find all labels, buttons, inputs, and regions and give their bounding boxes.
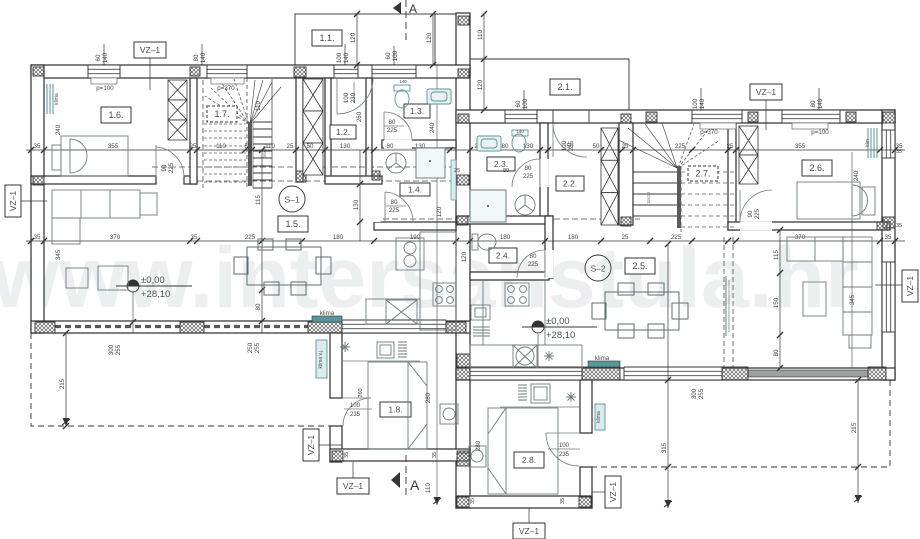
- pier wing2 se: [579, 497, 591, 507]
- svg-text:300: 300: [691, 388, 698, 399]
- wall south of 2.6: [728, 222, 890, 230]
- svg-text:115: 115: [773, 250, 780, 260]
- svg-text:25: 25: [622, 143, 629, 150]
- dim chain A: [26, 143, 905, 153]
- wall south of 1.2: [325, 176, 382, 184]
- dim door wing1: [344, 408, 372, 410]
- svg-text:225: 225: [675, 143, 686, 150]
- svg-text:235: 235: [350, 412, 361, 418]
- pier top wall b: [294, 67, 306, 77]
- wardrobe hall unit1: [303, 79, 323, 175]
- sink bath 1.3: [386, 153, 406, 173]
- svg-text:225: 225: [168, 162, 175, 173]
- vline x437 full: [436, 65, 438, 505]
- heater wing2: [518, 385, 527, 400]
- svg-text:355: 355: [795, 143, 806, 150]
- pier right wall mid: [883, 217, 895, 228]
- top wall right wing: [456, 110, 895, 123]
- svg-text:2.6.: 2.6.: [809, 163, 824, 173]
- klima vert wing2: [595, 404, 605, 430]
- svg-text:VZ–1: VZ–1: [8, 191, 18, 212]
- svg-text:35: 35: [344, 452, 350, 458]
- bed room 1.6: [52, 136, 128, 176]
- wardrobe room 1.6: [168, 80, 187, 140]
- room label 1.8: [380, 402, 411, 417]
- svg-text:225: 225: [387, 127, 398, 134]
- svg-text:255: 255: [254, 342, 261, 353]
- toilet wc 2.4: [472, 234, 496, 250]
- svg-text:klima: klima: [54, 93, 60, 105]
- dining table S-1: [234, 239, 331, 295]
- wall south of 2.3: [456, 216, 553, 224]
- window top-right w2: [692, 110, 742, 123]
- svg-text:235: 235: [568, 140, 575, 151]
- window top-right w1: [505, 110, 537, 123]
- window top-left w3: [334, 65, 358, 78]
- vdim x262 living1: [255, 147, 265, 333]
- coffee table living2: [803, 282, 826, 316]
- wall 1.6|stair: [190, 78, 197, 184]
- svg-text:345: 345: [849, 294, 856, 305]
- svg-text:80: 80: [502, 143, 509, 150]
- door bath 1.4: [385, 192, 413, 222]
- bed wing2: [488, 408, 558, 494]
- dim chain B left: [26, 234, 459, 244]
- pier party mid2: [458, 114, 469, 123]
- wall 2.3|2.2: [540, 123, 548, 222]
- wardrobe room 2.6: [739, 126, 758, 184]
- wing1 left wall upper: [330, 333, 342, 398]
- pier stair1 foot: [296, 171, 306, 182]
- party wall: [456, 13, 470, 508]
- svg-text:355: 355: [108, 143, 119, 150]
- window bottom-right b: [624, 367, 722, 380]
- sill window w3r: [700, 123, 736, 129]
- sill window w2: [211, 78, 244, 84]
- pier top-right wall b: [748, 112, 758, 122]
- svg-text:140: 140: [399, 79, 407, 84]
- pier bottom-right klima: [582, 367, 620, 380]
- toilet bath 2.3: [512, 130, 528, 152]
- wall south of 1.6 east part: [184, 176, 197, 184]
- vdim x484 terrace2: [477, 11, 487, 113]
- washbasin wing2: [531, 384, 550, 403]
- sill window w4r: [792, 123, 828, 129]
- sofa living 1.5: [52, 190, 157, 244]
- level marker S-1: [116, 275, 192, 300]
- armchair living 1.5: [66, 266, 128, 290]
- pier bottom-left klima: [308, 322, 342, 333]
- svg-text:p=100: p=100: [811, 129, 829, 136]
- vdim x360 mid: [353, 150, 363, 241]
- arrow end x668: [665, 500, 672, 508]
- svg-text:110: 110: [216, 143, 226, 150]
- dim chain B right: [456, 234, 905, 244]
- wing2 right wall upper: [580, 380, 592, 433]
- heater wing1: [398, 342, 407, 357]
- svg-text:2.4.: 2.4.: [496, 251, 510, 261]
- svg-text:235: 235: [559, 452, 570, 458]
- svg-text:2.8.: 2.8.: [522, 455, 536, 465]
- dim leader w3: [344, 44, 346, 65]
- wall core2 duct: [619, 123, 633, 225]
- svg-text:60: 60: [95, 54, 102, 61]
- svg-text:240: 240: [55, 124, 62, 135]
- svg-text:140: 140: [699, 98, 706, 109]
- counter line wing1: [343, 360, 420, 362]
- glass band bottom-right dark: [748, 370, 868, 377]
- pier wing1 sw: [332, 451, 343, 461]
- svg-text:140: 140: [343, 52, 350, 63]
- svg-text:140: 140: [817, 98, 824, 109]
- tv panel living2: [726, 276, 729, 336]
- door gap wall 2.3: [539, 159, 548, 187]
- svg-text:p=370: p=370: [700, 129, 718, 136]
- label VZ-1 wing2 east: [605, 476, 621, 508]
- svg-text:50: 50: [307, 143, 314, 150]
- wall south of 1.4: [374, 222, 456, 230]
- door gap wall 1.4: [365, 192, 380, 222]
- svg-text:klima v.j.: klima v.j.: [318, 349, 324, 368]
- pier left wall mid: [33, 176, 44, 185]
- glass band bottom-left a: [55, 325, 180, 328]
- room label 1.2: [330, 125, 356, 139]
- svg-text:225: 225: [754, 208, 761, 219]
- pier top-right corner: [883, 112, 895, 123]
- svg-text:25: 25: [287, 143, 294, 150]
- svg-text:S–2: S–2: [590, 264, 605, 274]
- door gap wall 2.6: [740, 221, 772, 230]
- svg-text:klm: klm: [865, 139, 871, 147]
- marker line S-2: [537, 334, 539, 368]
- svg-text:180: 180: [333, 234, 344, 241]
- vdim 1.1 left: [350, 11, 360, 68]
- kitchen unit2 counter: [470, 280, 582, 368]
- svg-text:240: 240: [853, 170, 860, 181]
- svg-text:80: 80: [525, 165, 532, 172]
- left outer wall: [31, 65, 44, 333]
- label VZ-1 left edge: [5, 185, 21, 217]
- svg-text:100: 100: [559, 443, 570, 449]
- svg-text:35: 35: [885, 234, 892, 241]
- svg-text:1.3.: 1.3.: [410, 106, 424, 116]
- svg-text:1.4.: 1.4.: [408, 185, 422, 195]
- svg-text:80: 80: [193, 54, 200, 61]
- klima room 2.6: [868, 128, 877, 158]
- pier party mid1: [458, 69, 469, 78]
- overhang dashed upper-left a: [152, 166, 456, 168]
- svg-text:240: 240: [429, 122, 436, 133]
- tv column living2: [724, 237, 733, 367]
- svg-text:35: 35: [470, 498, 476, 504]
- room label 2.3: [487, 157, 515, 171]
- pier top-left corner: [33, 67, 44, 76]
- pier party bath b: [457, 216, 468, 225]
- room label 2.5: [625, 258, 655, 274]
- svg-text:80: 80: [530, 253, 537, 260]
- window top-left w2: [207, 65, 247, 78]
- window bottom-right a: [470, 367, 582, 380]
- dim leader w2: [201, 44, 203, 65]
- klima room 1.6: [47, 84, 53, 114]
- svg-text:120: 120: [426, 32, 433, 43]
- room label 1.6: [101, 107, 131, 123]
- dim door 1.4 line: [386, 205, 406, 207]
- room label 2.2: [556, 176, 584, 191]
- svg-text:80: 80: [810, 100, 817, 107]
- label VZ-1 wing2 south: [513, 523, 545, 539]
- door wing2: [546, 433, 579, 466]
- svg-text:215: 215: [59, 378, 66, 389]
- room label 1.4: [400, 183, 430, 196]
- pier wall 2.6 east: [877, 222, 887, 230]
- svg-text:±0,00: ±0,00: [141, 275, 165, 286]
- svg-text:255: 255: [115, 344, 122, 355]
- svg-text:2.5.: 2.5.: [632, 261, 647, 271]
- shower bath 1.4: [416, 148, 445, 178]
- top wall left wing: [31, 65, 470, 78]
- svg-text:370: 370: [795, 234, 806, 241]
- sparkle wing2: [566, 392, 576, 402]
- svg-text:VZ–1: VZ–1: [519, 526, 540, 536]
- svg-text:130: 130: [353, 199, 360, 210]
- pier party wing2: [457, 453, 469, 466]
- svg-text:80: 80: [387, 143, 394, 150]
- door wing1: [343, 398, 371, 426]
- door entry 2.2: [553, 123, 587, 157]
- svg-text:35: 35: [432, 452, 438, 458]
- terrace 1.1 outline: [295, 14, 435, 65]
- room label 2.1: [550, 79, 580, 95]
- sofa living2: [787, 237, 872, 348]
- bed wing1: [368, 362, 427, 449]
- wall stair|wardrobe: [296, 78, 303, 182]
- svg-text:+28,10: +28,10: [546, 330, 575, 341]
- window top-left stair: [372, 65, 416, 78]
- washer bath 2.3: [515, 195, 535, 215]
- pier party top: [458, 16, 469, 25]
- svg-text:p=100: p=100: [96, 85, 114, 92]
- dim leader w4: [700, 88, 702, 110]
- svg-text:280: 280: [475, 440, 482, 451]
- sparkle wing1: [340, 342, 350, 352]
- svg-text:A: A: [409, 2, 417, 16]
- pier bottom-left party: [446, 322, 466, 333]
- svg-text:1.7.: 1.7.: [214, 109, 229, 119]
- pier bottom-right mid: [722, 367, 748, 380]
- svg-text:25: 25: [454, 168, 460, 174]
- bed room 2.6: [797, 182, 875, 219]
- dim leader w6: [523, 90, 525, 110]
- glass band bottom-left edge a: [55, 320, 180, 322]
- sink bath 2.3: [477, 136, 501, 151]
- svg-text:110: 110: [255, 101, 262, 111]
- svg-text:16x28: 16x28: [646, 191, 651, 204]
- terrace 2.1 outline: [470, 59, 629, 110]
- svg-text:260: 260: [356, 111, 363, 122]
- wall south of 1.3: [382, 140, 456, 148]
- dim leader w5: [818, 88, 820, 110]
- pier wall 1.4: [372, 171, 380, 180]
- svg-text:280: 280: [425, 392, 432, 403]
- terrace left dashed outline: [31, 333, 330, 426]
- svg-text:225: 225: [245, 234, 256, 241]
- washbasin wing1: [377, 342, 394, 358]
- svg-text:140: 140: [200, 52, 207, 63]
- wing2 right wall lower: [580, 467, 592, 508]
- svg-text:25: 25: [622, 234, 629, 241]
- svg-text:80: 80: [503, 168, 509, 174]
- door gap wall 1.3: [384, 139, 412, 148]
- arrow end x437: [434, 497, 441, 505]
- marker line S-1: [132, 292, 134, 333]
- washer wing1: [440, 404, 458, 424]
- door gap wall 2.4: [544, 250, 553, 278]
- svg-text:50: 50: [245, 143, 252, 150]
- arrow end x858: [855, 495, 862, 503]
- vdim 1.1 right: [426, 11, 436, 68]
- vdim x66 terrace1: [59, 330, 69, 429]
- pier party bath a: [457, 175, 469, 185]
- door opening entry 2.2: [553, 111, 589, 122]
- label VZ-1 top right: [750, 84, 782, 100]
- label VZ-1 top left: [134, 42, 166, 58]
- svg-text:60: 60: [515, 100, 522, 107]
- wall south of 1.6 west part: [31, 176, 156, 184]
- wall east of 2.4: [545, 216, 553, 278]
- svg-text:225: 225: [528, 261, 539, 268]
- svg-text:225: 225: [389, 207, 400, 214]
- pier bottom-right party: [456, 367, 470, 380]
- door wc 2.4: [517, 250, 545, 278]
- wing1 bottom wall: [330, 449, 470, 461]
- room label 2.4: [489, 248, 517, 263]
- wall south of 2.4: [470, 272, 549, 280]
- label VZ-1 wing1 south: [337, 478, 369, 494]
- pier bottom-left 1: [35, 322, 55, 333]
- kitchen unit1 counter: [366, 232, 456, 330]
- vline x852 living2: [851, 152, 853, 368]
- svg-text:150: 150: [773, 297, 780, 308]
- vdim x858 terrace2: [851, 377, 861, 503]
- glass band bottom-left edge b: [204, 320, 308, 322]
- terrace right dashed outline: [592, 380, 890, 467]
- svg-text:2.1.: 2.1.: [557, 82, 572, 92]
- svg-text:110: 110: [265, 143, 275, 150]
- svg-text:90: 90: [161, 164, 168, 171]
- svg-text:100: 100: [522, 98, 529, 109]
- window top-right w3: [782, 110, 840, 123]
- unit circle S-2: [585, 255, 611, 281]
- svg-text:130: 130: [340, 143, 351, 150]
- svg-text:S–1: S–1: [284, 195, 299, 205]
- klima bar bath 1.4: [451, 160, 456, 200]
- room label 2.8: [514, 452, 544, 468]
- svg-text:2.7.: 2.7.: [695, 169, 710, 179]
- svg-text:60: 60: [385, 52, 392, 59]
- right outer wall: [882, 110, 895, 380]
- svg-text:25: 25: [190, 143, 197, 150]
- overhang dashed upper-left b: [197, 180, 456, 182]
- svg-text:VZ–1: VZ–1: [343, 481, 364, 491]
- pier core2 top: [621, 114, 631, 123]
- label VZ-1 wing1 west: [303, 429, 319, 461]
- bottom wall left wing: [31, 321, 470, 333]
- room label 1.1: [312, 30, 342, 46]
- wall stair2|2.6: [728, 123, 736, 230]
- svg-text:180: 180: [568, 234, 579, 241]
- svg-text:50: 50: [593, 143, 600, 150]
- svg-text:140: 140: [516, 129, 524, 134]
- room label 2.7: [688, 166, 718, 181]
- svg-text:255: 255: [698, 388, 705, 399]
- svg-text:225: 225: [523, 173, 534, 180]
- svg-text:35: 35: [896, 223, 902, 229]
- svg-text:225: 225: [671, 234, 682, 241]
- svg-text:100: 100: [692, 98, 699, 109]
- pier top-right wall c: [846, 112, 856, 122]
- svg-text:100: 100: [343, 92, 350, 103]
- room label 1.7: [207, 106, 237, 122]
- room label 2.6: [802, 160, 832, 176]
- svg-text:100: 100: [350, 403, 361, 409]
- svg-text:100: 100: [392, 50, 399, 61]
- dim door 1.3 line: [384, 125, 404, 127]
- svg-text:120: 120: [350, 32, 357, 43]
- svg-text:35: 35: [560, 498, 566, 504]
- arrow end x66: [63, 418, 70, 426]
- washer wing2: [469, 446, 486, 467]
- wall wardrobe|1.2: [325, 78, 331, 182]
- svg-text:100: 100: [336, 52, 343, 63]
- level marker S-2: [522, 316, 597, 341]
- dim leader w6b: [393, 46, 395, 65]
- svg-text:120: 120: [461, 251, 468, 262]
- svg-text:VZ–1: VZ–1: [306, 435, 316, 456]
- pier core2 foot: [621, 217, 631, 226]
- terrace connector line: [435, 13, 456, 15]
- svg-text:180: 180: [500, 234, 511, 241]
- bottom wall right wing: [456, 368, 895, 380]
- pier wall 2.6 west: [745, 222, 758, 230]
- wing1 left wall lower: [330, 426, 342, 462]
- svg-text:p=370: p=370: [217, 85, 235, 92]
- svg-text:1.8.: 1.8.: [388, 405, 402, 415]
- svg-text:VZ–1: VZ–1: [608, 482, 618, 503]
- svg-text:100: 100: [561, 140, 568, 151]
- svg-text:260: 260: [358, 388, 364, 397]
- svg-text:345: 345: [55, 249, 62, 260]
- svg-text:80: 80: [389, 119, 396, 126]
- svg-text:300: 300: [108, 344, 115, 355]
- pier bottom-left 2: [180, 322, 204, 333]
- svg-text:VZ–1: VZ–1: [140, 45, 161, 55]
- overhang dashed stair1 boundary: [202, 80, 204, 188]
- unit circle S-1: [279, 186, 305, 212]
- svg-text:230: 230: [350, 92, 357, 103]
- dim leader w1: [103, 44, 105, 65]
- section mark A top: [393, 0, 417, 42]
- svg-text:±0,00: ±0,00: [546, 316, 570, 327]
- shower bath 2.3: [470, 190, 506, 222]
- pier wing1 se: [457, 451, 469, 461]
- svg-text:110: 110: [425, 483, 432, 493]
- vdim x668 terrace2: [661, 241, 671, 508]
- svg-text:315: 315: [661, 442, 668, 453]
- svg-text:80: 80: [391, 199, 398, 206]
- svg-text:370: 370: [110, 234, 121, 241]
- stair unit1: [204, 78, 281, 188]
